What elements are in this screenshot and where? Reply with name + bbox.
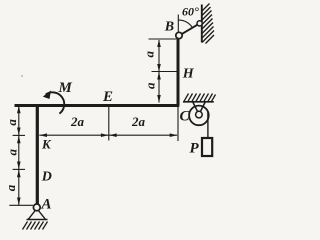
svg-text:2a: 2a — [131, 114, 146, 129]
svg-text:a: a — [141, 50, 156, 57]
svg-text:K: K — [41, 137, 52, 152]
svg-text:2a: 2a — [70, 114, 85, 129]
svg-text:D: D — [41, 170, 52, 185]
svg-text:H: H — [182, 67, 195, 82]
svg-text:B: B — [164, 20, 174, 35]
svg-text:60°: 60° — [182, 5, 199, 19]
svg-text:a: a — [4, 148, 19, 155]
svg-text:P: P — [190, 141, 200, 157]
svg-text:E: E — [102, 89, 113, 105]
svg-text:C: C — [180, 109, 191, 125]
svg-text:a: a — [4, 119, 19, 126]
svg-text:M: M — [58, 80, 73, 96]
svg-text:a: a — [142, 82, 157, 89]
svg-text:a: a — [3, 184, 18, 191]
svg-text:A: A — [41, 197, 52, 213]
